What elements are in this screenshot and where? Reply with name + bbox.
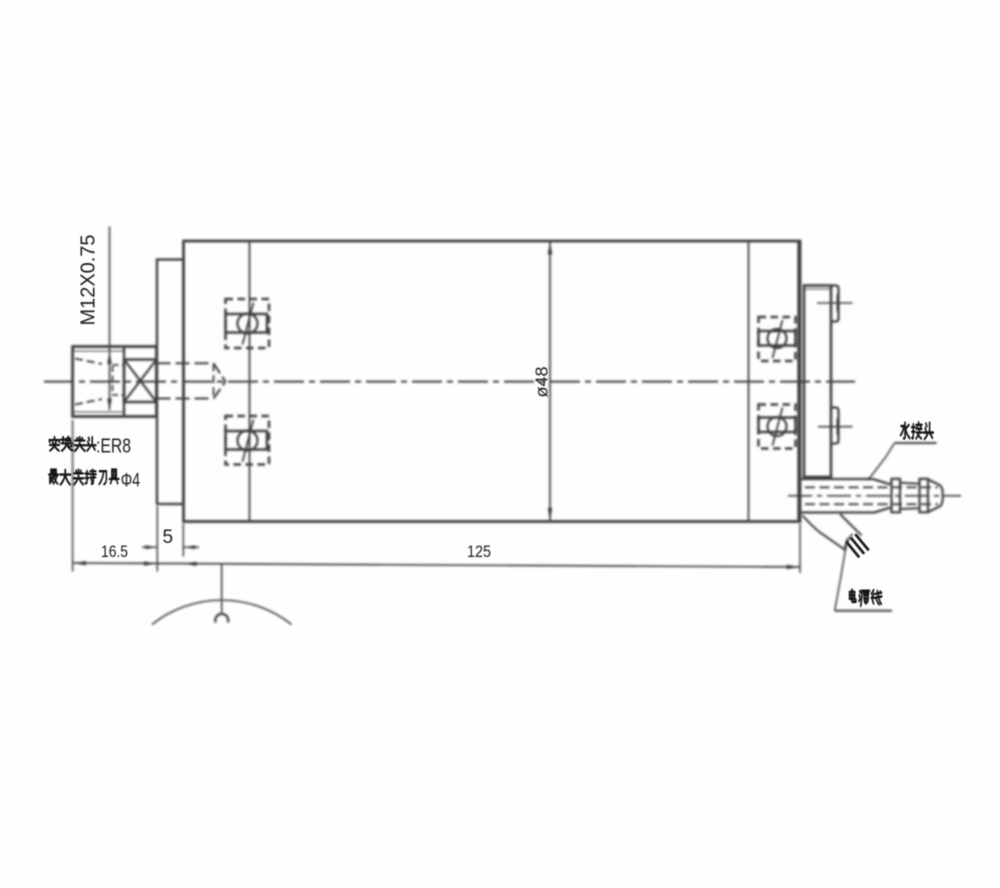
svg-text:16.5: 16.5 [101,543,128,561]
svg-text:125: 125 [467,543,491,561]
svg-text:ø48: ø48 [532,367,552,398]
svg-text:M12X0.75: M12X0.75 [78,235,100,326]
svg-text::ER8: :ER8 [96,436,131,458]
svg-text:5: 5 [163,527,174,548]
svg-text:Φ4: Φ4 [121,471,141,492]
